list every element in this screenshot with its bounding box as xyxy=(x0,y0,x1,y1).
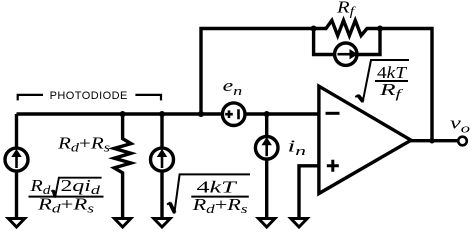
svg-text:Rd+Rs: Rd+Rs xyxy=(37,195,94,216)
svg-text:en: en xyxy=(223,76,243,98)
svg-text:vo: vo xyxy=(450,113,471,135)
svg-text:Rf: Rf xyxy=(336,0,357,19)
svg-text:PHOTODIODE: PHOTODIODE xyxy=(50,90,128,102)
svg-text:Rf: Rf xyxy=(379,80,405,101)
svg-text:4kT: 4kT xyxy=(377,63,408,82)
svg-text:4kT: 4kT xyxy=(197,178,239,197)
svg-text:Rd+Rs: Rd+Rs xyxy=(57,134,110,155)
svg-text:in: in xyxy=(288,136,307,158)
svg-text:Rd+Rs: Rd+Rs xyxy=(191,195,247,216)
